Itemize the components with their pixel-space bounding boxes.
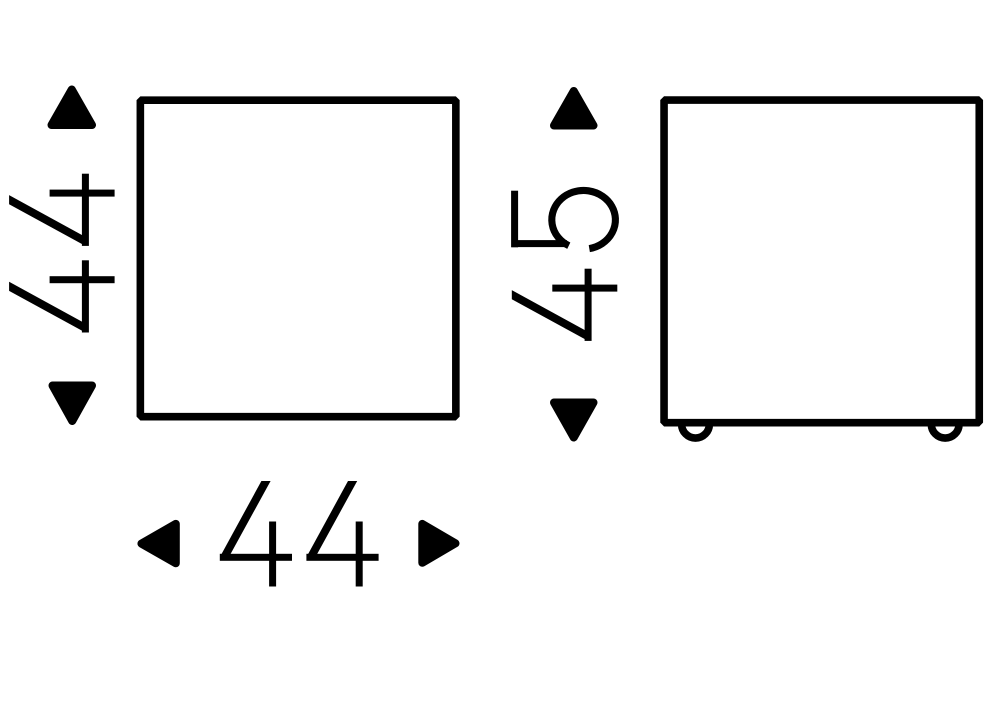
bottom "44" dimension text <box>220 481 379 587</box>
arrow up (right 45 dim) <box>554 91 594 126</box>
arrow down (left 44 dim) <box>53 386 93 422</box>
arrow right (bottom 44 dim) <box>422 524 455 563</box>
digit 5 <box>511 190 615 248</box>
right square (front view with casters) <box>664 100 979 423</box>
left "44" dimension text rotated <box>9 174 115 333</box>
left square (top view) <box>140 100 456 417</box>
arrow up (left 44 dim) <box>52 90 93 126</box>
caster wheel left <box>682 410 710 438</box>
digit 4 (first) <box>220 481 292 587</box>
digit 4 (second) <box>9 174 115 246</box>
right "45" dimension text rotated <box>511 190 617 340</box>
arrow left (bottom 44 dim) <box>141 524 175 563</box>
digit 4 <box>512 269 618 341</box>
digit 4 (second) <box>306 481 378 587</box>
digit 4 (first) <box>9 260 115 332</box>
caster wheel right <box>931 410 959 438</box>
arrow down (right 45 dim) <box>554 403 594 438</box>
